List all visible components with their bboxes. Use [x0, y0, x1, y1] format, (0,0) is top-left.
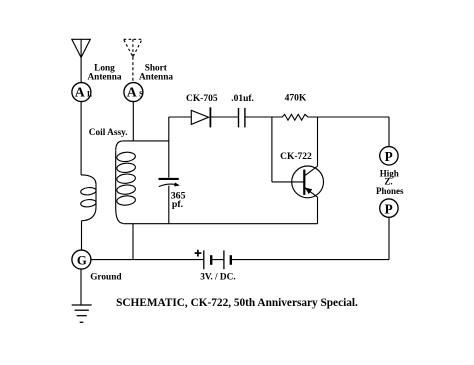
wire: capacitor to base node and resistor	[245, 116, 282, 118]
wire: ground rail left of battery	[91, 259, 204, 261]
svg-text:pf.: pf.	[172, 199, 184, 210]
variable capacitor C1 365 pf	[159, 179, 180, 224]
wire: tank bottom to ground rail junction	[132, 224, 134, 260]
wire: ground rail right of battery	[231, 259, 389, 261]
label: 365 pf.	[171, 191, 186, 211]
svg-text:SCHEMATIC, CK-722, 50th Annive: SCHEMATIC, CK-722, 50th Anniversary Spec…	[116, 297, 358, 309]
inductor L1 primary winding	[80, 175, 96, 221]
svg-text:CK-705: CK-705	[186, 94, 218, 104]
wire: G terminal to earth ground	[80, 269, 82, 304]
wire: top rail down to phones P1	[388, 117, 390, 147]
svg-text:P: P	[385, 201, 393, 216]
wire: top rail from tuning node to diode	[169, 116, 192, 118]
terminal P1 (phone)	[380, 147, 398, 165]
resistor R1 470K	[282, 114, 308, 120]
wire: AL down to coil L1 primary	[80, 102, 82, 175]
svg-text:CK-722: CK-722	[280, 152, 312, 162]
svg-text:Antenna: Antenna	[87, 73, 121, 83]
antenna symbol (long antenna)	[72, 39, 91, 57]
wire: base node down from top rail	[271, 117, 273, 182]
wire: coil primary down to G terminal	[81, 221, 83, 251]
svg-text:S: S	[139, 90, 144, 99]
wire: diode to capacitor C2	[210, 116, 238, 118]
terminal AS	[124, 83, 144, 102]
wire: long antenna lead to AL	[80, 58, 82, 83]
wire: emitter down to tank bottom rail	[317, 197, 319, 224]
svg-text:Coil Assy.: Coil Assy.	[89, 128, 128, 138]
battery B1 3V	[204, 250, 231, 269]
svg-text:470K: 470K	[285, 94, 307, 104]
svg-text:A: A	[75, 84, 85, 99]
terminal G	[72, 250, 91, 269]
svg-text:P: P	[385, 149, 393, 164]
svg-text:L: L	[87, 90, 92, 99]
wire: base lead to transistor	[272, 181, 304, 183]
svg-text:Ground: Ground	[90, 272, 122, 282]
wire: coil top rail to tuning node	[123, 140, 169, 142]
wire: phones P2 down to ground rail	[388, 217, 390, 259]
svg-text:Phones: Phones	[376, 186, 404, 196]
wire: dashed short antenna lead to AS	[132, 57, 134, 83]
capacitor C2 .01uf	[239, 108, 245, 128]
svg-text:3V. / DC.: 3V. / DC.	[200, 272, 235, 282]
wire: collector up to top rail	[317, 117, 319, 166]
svg-text:A: A	[127, 84, 137, 99]
wire: tank bottom rail	[123, 223, 317, 225]
svg-text:G: G	[77, 254, 87, 268]
terminal AL	[72, 83, 92, 102]
transistor Q1 CK-722	[292, 166, 324, 198]
inductor L1 secondary winding	[116, 141, 136, 224]
wire: AS down to coil top rail	[132, 102, 134, 141]
wire: tuning node vertical to variable capacitor	[168, 117, 170, 178]
svg-text:Antenna: Antenna	[139, 73, 173, 83]
terminal P2 (phone)	[380, 199, 398, 217]
wire: resistor to collector node and phones	[308, 116, 389, 118]
antenna symbol (short antenna, dashed)	[124, 39, 143, 57]
diode D1 CK-705	[191, 107, 210, 127]
label: Long Antenna	[87, 64, 121, 83]
svg-text:.01uf.: .01uf.	[231, 94, 254, 104]
label: battery plus	[195, 250, 202, 257]
label: High Z. Phones	[376, 168, 404, 195]
ground (earth) symbol	[72, 305, 92, 322]
label: Short Antenna	[139, 64, 173, 83]
